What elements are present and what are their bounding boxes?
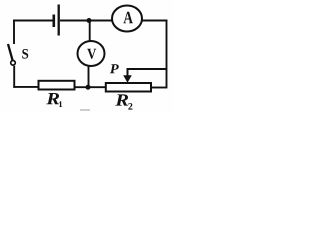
wire R2 right connector xyxy=(151,87,167,89)
wire ammeter to right corner xyxy=(142,20,167,22)
wire voltmeter bottom to junction xyxy=(88,66,90,88)
wire slider branch horizontal xyxy=(127,68,167,70)
wire left vertical upper xyxy=(13,20,15,44)
wire top-left horizontal xyxy=(13,20,53,22)
ammeter U: circle xyxy=(112,6,142,32)
voltmeter label V xyxy=(87,49,96,59)
label P xyxy=(110,64,119,73)
wire left vertical lower xyxy=(13,66,15,88)
battery short plate xyxy=(52,15,55,28)
rheostat slider stem xyxy=(127,68,129,76)
switch S contact circle xyxy=(11,61,16,66)
wire battery to ammeter xyxy=(60,20,113,22)
voltmeter U: circle xyxy=(78,41,105,66)
resistor R2 box xyxy=(106,83,151,92)
node junction bottom (voltmeter tap) xyxy=(86,85,91,90)
wire right vertical xyxy=(166,20,168,89)
label R1 xyxy=(46,93,59,104)
node junction top (voltmeter tap) xyxy=(87,18,92,23)
ammeter label A xyxy=(123,12,132,23)
rheostat slider arrowhead xyxy=(123,75,132,83)
switch S blade xyxy=(8,44,13,60)
stray scan mark xyxy=(80,109,90,110)
resistor R1 box xyxy=(39,81,75,90)
wire bottom-left horizontal xyxy=(13,86,38,88)
label R2 xyxy=(115,94,128,105)
wire junction to voltmeter top xyxy=(89,21,91,42)
battery long plate xyxy=(58,5,60,36)
label S xyxy=(22,49,28,59)
wire R1 to R2 xyxy=(75,86,106,88)
